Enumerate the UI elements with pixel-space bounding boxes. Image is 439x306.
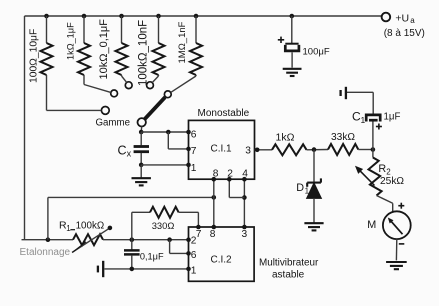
svg-text:100Ω_10μF: 100Ω_10μF <box>29 29 40 83</box>
svg-text:330Ω: 330Ω <box>152 220 175 231</box>
svg-text:8: 8 <box>210 229 216 240</box>
svg-text:1kΩ_1μF: 1kΩ_1μF <box>66 22 76 60</box>
svg-text:2: 2 <box>191 236 197 247</box>
svg-text:astable: astable <box>272 269 305 280</box>
svg-text:Gamme: Gamme <box>96 117 130 128</box>
svg-text:1: 1 <box>66 224 71 233</box>
svg-text:1kΩ: 1kΩ <box>276 132 295 144</box>
svg-text:+U: +U <box>395 13 409 25</box>
svg-text:Multivibrateur: Multivibrateur <box>259 257 319 268</box>
svg-text:1: 1 <box>305 186 310 195</box>
svg-text:1μF: 1μF <box>384 112 401 123</box>
svg-text:C.I.1: C.I.1 <box>211 143 233 154</box>
svg-text:2: 2 <box>386 167 391 176</box>
svg-text:C.I.2: C.I.2 <box>211 254 233 265</box>
svg-text:x: x <box>127 149 132 159</box>
svg-text:3: 3 <box>245 145 251 156</box>
svg-text:a: a <box>410 16 415 25</box>
svg-text:100μF: 100μF <box>303 47 330 58</box>
svg-text:7: 7 <box>196 229 202 240</box>
svg-text:D: D <box>296 182 304 194</box>
svg-text:100kΩ: 100kΩ <box>76 221 105 232</box>
svg-text:Etalonnage: Etalonnage <box>20 247 71 258</box>
svg-text:1MΩ_1nF: 1MΩ_1nF <box>177 21 188 63</box>
svg-text:(8 à 15V): (8 à 15V) <box>384 28 425 39</box>
svg-text:Monostable: Monostable <box>198 108 250 119</box>
svg-text:6: 6 <box>191 129 197 140</box>
svg-text:1: 1 <box>191 163 197 174</box>
svg-text:6: 6 <box>191 250 197 261</box>
svg-text:1: 1 <box>191 266 197 277</box>
svg-text:C: C <box>118 143 127 157</box>
svg-text:R: R <box>378 163 386 175</box>
svg-text:100kΩ_10nF: 100kΩ_10nF <box>138 20 150 86</box>
svg-text:25kΩ: 25kΩ <box>380 176 404 187</box>
svg-text:33kΩ: 33kΩ <box>331 132 355 143</box>
svg-text:M: M <box>367 219 376 231</box>
svg-text:3: 3 <box>242 229 248 240</box>
svg-text:0,1μF: 0,1μF <box>140 251 164 261</box>
svg-text:7: 7 <box>191 146 197 157</box>
svg-text:1: 1 <box>361 115 366 125</box>
svg-text:10kΩ_0,1μF: 10kΩ_0,1μF <box>98 19 110 80</box>
